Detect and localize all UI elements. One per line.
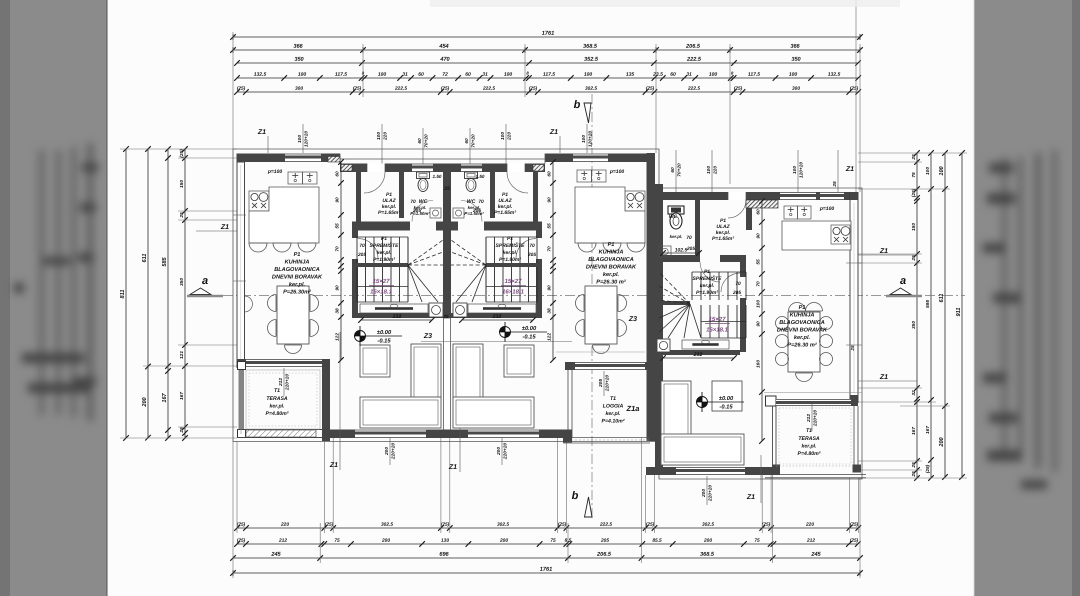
- svg-text:696: 696: [439, 552, 449, 558]
- svg-text:911: 911: [956, 308, 962, 317]
- dimension chain top row5 25/300/222.5...: [237, 91, 858, 93]
- svg-text:470: 470: [439, 57, 450, 63]
- svg-text:368.5: 368.5: [700, 552, 715, 558]
- svg-text:220: 220: [383, 132, 389, 141]
- left building left wall thin double line: [237, 162, 245, 359]
- svg-text:31: 31: [482, 72, 488, 78]
- party wall between unit A and unit B: [443, 164, 451, 319]
- svg-text:70: 70: [529, 243, 535, 249]
- svg-text:ker.pl.: ker.pl.: [801, 443, 816, 449]
- svg-text:a: a: [900, 275, 906, 287]
- right wall door swing arc: [842, 228, 850, 244]
- svg-text:BLAGOVAONICA: BLAGOVAONICA: [274, 267, 320, 273]
- dining table unit B: [585, 286, 617, 344]
- dimension chain bottom row2 212/75/200/130...: [237, 543, 858, 545]
- kitchen B stove: [625, 191, 645, 211]
- svg-text:LOGGIA: LOGGIA: [603, 403, 624, 409]
- interior chain right building 60/90/55/100/90/160: [761, 201, 763, 441]
- terrace left outline and posts: [238, 362, 246, 370]
- unit A wall below hall/wc: [352, 222, 410, 231]
- svg-text:(25): (25): [441, 522, 450, 528]
- unit B hall right wall: [533, 171, 538, 224]
- svg-text:167: 167: [179, 392, 185, 400]
- svg-text:220: 220: [280, 522, 289, 528]
- svg-text:222.5: 222.5: [394, 86, 407, 92]
- svg-text:611: 611: [142, 254, 148, 263]
- svg-text:205: 205: [527, 252, 536, 258]
- svg-text:25: 25: [179, 212, 185, 219]
- svg-text:205: 205: [412, 208, 421, 214]
- stairs unit B mid walk line: [486, 286, 537, 288]
- svg-text:100: 100: [706, 166, 712, 174]
- terrace right thick wall: [322, 367, 330, 441]
- right dimension chain 100/595/167: [930, 153, 932, 478]
- window bottom living B 200: [468, 430, 539, 439]
- svg-text:Z1: Z1: [220, 224, 229, 231]
- loggia zone line: [556, 351, 645, 353]
- left dimension chain 611/200: [147, 149, 149, 438]
- svg-text:245: 245: [270, 552, 281, 558]
- washbasin right building: [659, 246, 671, 257]
- svg-text:205: 205: [472, 208, 481, 214]
- svg-text:±0.00: ±0.00: [522, 326, 537, 332]
- svg-text:P1: P1: [507, 236, 513, 242]
- dim 232 unit A: [361, 319, 432, 321]
- interior chain unit B 60/90/55/70/90/38/122: [552, 162, 554, 360]
- right building wc/hall wall below: [663, 255, 700, 262]
- svg-text:60: 60: [464, 138, 470, 144]
- svg-text:72: 72: [442, 72, 448, 78]
- right dimension chain small 25/75/150/350/167: [916, 153, 918, 478]
- svg-text:205: 205: [686, 246, 695, 252]
- svg-text:1761: 1761: [540, 567, 552, 573]
- svg-text:P=1.65m²: P=1.65m²: [378, 210, 400, 216]
- right building stair block right wall: [740, 262, 746, 277]
- left dimension chain small 25/150/25/350/121/167: [184, 149, 186, 438]
- svg-text:(25): (25): [529, 86, 538, 92]
- door spremiste B swing: [516, 239, 536, 259]
- right terrace roof line: [764, 392, 862, 394]
- svg-text:P1: P1: [381, 236, 387, 242]
- svg-text:55: 55: [547, 223, 553, 229]
- svg-text:KUHINJA: KUHINJA: [599, 249, 624, 255]
- svg-text:595: 595: [925, 300, 931, 308]
- svg-text:167: 167: [162, 392, 168, 402]
- svg-text:P=4.80m²: P=4.80m²: [798, 451, 821, 457]
- svg-text:25: 25: [911, 255, 917, 262]
- washing machine right building: [657, 339, 670, 352]
- svg-text:70: 70: [686, 235, 692, 241]
- svg-text:(25): (25): [850, 538, 859, 544]
- svg-text:70+20: 70+20: [471, 134, 477, 148]
- svg-text:p=100: p=100: [609, 169, 625, 175]
- svg-text:122: 122: [335, 333, 341, 341]
- svg-text:55: 55: [756, 259, 762, 265]
- svg-text:60: 60: [418, 72, 424, 78]
- level marker right building: [697, 397, 708, 408]
- svg-text:352.5: 352.5: [584, 57, 599, 63]
- svg-text:31: 31: [402, 72, 408, 78]
- svg-text:TERASA: TERASA: [266, 396, 288, 402]
- porch roof edge line: [340, 158, 545, 160]
- svg-text:(25): (25): [646, 86, 655, 92]
- door right wc swing: [700, 262, 720, 282]
- washing machine unit A: [429, 303, 443, 317]
- svg-text:T1: T1: [610, 396, 616, 402]
- svg-text:(25): (25): [734, 86, 743, 92]
- svg-text:16×18.1: 16×18.1: [706, 327, 729, 333]
- svg-text:KUHINJA: KUHINJA: [790, 312, 815, 318]
- dimension chain bottom row1 25/220/302.5...: [237, 527, 858, 529]
- left dimension chain 811: [125, 149, 127, 438]
- window label 200/220+20 bottom B: [501, 438, 503, 465]
- svg-text:75: 75: [334, 538, 340, 544]
- svg-text:Z1: Z1: [257, 129, 266, 136]
- svg-text:p=100: p=100: [819, 206, 835, 212]
- svg-text:25: 25: [911, 471, 917, 478]
- entry door unit A with swing arc: [367, 164, 385, 173]
- svg-text:350: 350: [791, 57, 801, 63]
- right building wall below stairs: [663, 350, 740, 355]
- svg-text:220+20: 220+20: [813, 410, 819, 427]
- window label 200/220+20 bottom A: [389, 438, 391, 465]
- svg-text:Z1: Z1: [549, 129, 558, 136]
- svg-text:Z3: Z3: [423, 333, 432, 340]
- svg-text:120+20: 120+20: [799, 162, 805, 178]
- svg-text:P=4.10m²: P=4.10m²: [602, 418, 625, 424]
- washing machine unit B: [453, 303, 467, 317]
- window porch wall wc A 60: [412, 164, 433, 173]
- extension lines left side: [120, 148, 237, 150]
- svg-text:Z1: Z1: [845, 166, 854, 173]
- svg-text:130: 130: [441, 538, 449, 544]
- svg-text:100: 100: [789, 72, 798, 78]
- svg-text:132.5: 132.5: [828, 72, 841, 78]
- svg-text:100: 100: [504, 72, 513, 78]
- svg-text:70: 70: [547, 246, 553, 252]
- unit B wall between hall and wc: [490, 171, 495, 218]
- svg-text:100: 100: [792, 166, 798, 174]
- window right building top 2: [820, 192, 844, 200]
- svg-text:15×27: 15×27: [505, 279, 523, 285]
- svg-text:232: 232: [492, 314, 502, 320]
- svg-text:100: 100: [584, 72, 593, 78]
- stairs unit A landing edge: [352, 263, 408, 267]
- svg-text:P1: P1: [704, 269, 710, 275]
- svg-text:(25): (25): [762, 522, 771, 528]
- svg-text:212: 212: [806, 538, 815, 544]
- svg-text:300: 300: [792, 86, 800, 92]
- door spremiste right building swing: [721, 273, 740, 292]
- svg-text:SPREMIŠTE: SPREMIŠTE: [496, 241, 526, 249]
- window label 60/70+20 right wc: [675, 150, 677, 192]
- svg-text:55: 55: [335, 223, 341, 229]
- stairs right building winder fan: [659, 272, 690, 304]
- svg-text:25: 25: [911, 154, 917, 161]
- svg-text:70: 70: [359, 243, 365, 249]
- svg-text:-0.15: -0.15: [377, 338, 391, 344]
- label 25 right top: [837, 150, 839, 192]
- dimension chain bottom row3 245/696/206.5/368.5/245: [233, 557, 860, 559]
- door label 100/220 right building: [711, 150, 713, 192]
- left building right wall: [647, 153, 656, 441]
- svg-text:117.5: 117.5: [335, 72, 347, 78]
- loggia top wall segments: [565, 362, 575, 370]
- sofa right building long: [661, 434, 744, 465]
- svg-text:302.5: 302.5: [497, 522, 509, 528]
- terrace top wall with window opening: [237, 359, 246, 367]
- svg-text:90: 90: [335, 285, 341, 291]
- svg-text:60: 60: [417, 138, 423, 144]
- svg-text:(25): (25): [237, 538, 246, 544]
- unit A hall left wall: [356, 171, 361, 224]
- window terrace top 212: [246, 359, 322, 367]
- svg-text:31: 31: [686, 72, 692, 78]
- svg-text:100: 100: [939, 165, 945, 175]
- svg-text:(25): (25): [179, 149, 185, 158]
- stairs unit B winder fan: [451, 240, 486, 265]
- dimension chain top row4 small dims: [237, 77, 858, 79]
- right building terrace top wall corner: [850, 395, 858, 406]
- stairs unit B lower flight treads: [485, 267, 487, 302]
- window top wall kitchen A 150: [285, 154, 321, 163]
- svg-text:811: 811: [120, 290, 126, 299]
- svg-text:(25): (25): [558, 522, 567, 528]
- svg-text:206.5: 206.5: [685, 44, 701, 50]
- svg-text:205: 205: [357, 252, 366, 258]
- window label 100/120+20 top kitchen B: [586, 124, 588, 153]
- svg-text:167: 167: [911, 427, 917, 435]
- svg-text:±0.00: ±0.00: [719, 396, 734, 402]
- door wc B swing: [461, 201, 482, 222]
- toilet unit A: [417, 172, 430, 179]
- svg-text:16×18.1: 16×18.1: [370, 289, 393, 295]
- svg-text:302.5: 302.5: [381, 522, 393, 528]
- svg-text:Z1: Z1: [329, 462, 338, 469]
- window label 205/220+20 loggia: [603, 371, 605, 396]
- dim 232 unit B: [462, 319, 533, 321]
- svg-text:TERASA: TERASA: [798, 436, 820, 442]
- svg-text:100: 100: [378, 72, 387, 78]
- entry door right building with swing arc: [728, 192, 746, 200]
- kitchen B counter island: [575, 187, 645, 243]
- svg-text:205: 205: [732, 290, 741, 296]
- svg-text:8: 8: [731, 70, 734, 75]
- svg-text:8: 8: [526, 70, 529, 75]
- svg-text:100: 100: [709, 72, 718, 78]
- entry door unit B with swing arc: [507, 164, 525, 173]
- svg-text:25: 25: [179, 427, 185, 434]
- svg-text:200: 200: [142, 396, 148, 407]
- svg-text:(25): (25): [353, 86, 362, 92]
- svg-text:90: 90: [547, 197, 553, 203]
- window right building bottom 200: [676, 467, 745, 475]
- right terrace right thin wall lines: [853, 406, 855, 465]
- washbasin unit B: [453, 208, 464, 218]
- dining chairs unit B: [576, 295, 585, 312]
- unit B wall below stairs: [443, 313, 542, 318]
- svg-text:Z1a: Z1a: [626, 404, 640, 413]
- terrace left dotted inner border: [246, 370, 320, 429]
- svg-text:25: 25: [832, 181, 838, 188]
- stairs unit B landing edge: [486, 263, 542, 267]
- svg-text:P=26.30m²: P=26.30m²: [283, 288, 311, 295]
- stairs right building mid walk line: [701, 321, 746, 323]
- svg-text:P=26.30 m²: P=26.30 m²: [787, 341, 817, 348]
- dimension chain top row3 350/470/352.5/222.5/350: [237, 62, 858, 64]
- svg-text:302.5: 302.5: [585, 86, 597, 92]
- svg-text:-0.15: -0.15: [719, 404, 733, 410]
- svg-text:ker.pl.: ker.pl.: [269, 403, 284, 409]
- svg-text:SPREMIŠTE: SPREMIŠTE: [693, 274, 723, 282]
- loggia side thin lines: [567, 370, 569, 438]
- svg-text:WC: WC: [669, 214, 678, 220]
- dining table right building: [788, 312, 820, 372]
- svg-text:100: 100: [756, 300, 762, 308]
- svg-text:T1: T1: [274, 388, 280, 394]
- left building top wall kitchen A section: [237, 154, 340, 163]
- left building facade outline: [233, 149, 659, 442]
- left building bottom wall segments: [330, 430, 355, 439]
- hatched block porch right end: [533, 165, 544, 172]
- svg-text:220+20: 220+20: [605, 375, 611, 392]
- loggia open edge bottom lines: [563, 437, 650, 439]
- svg-text:b: b: [572, 490, 579, 502]
- svg-text:220: 220: [713, 166, 719, 175]
- svg-text:38: 38: [335, 308, 341, 314]
- extension lines bottom: [232, 441, 234, 578]
- svg-text:Z1: Z1: [448, 464, 457, 471]
- left gray blurred sidebar: [0, 0, 106, 596]
- kitchen A sinks: [288, 172, 303, 184]
- svg-text:±0.00: ±0.00: [377, 330, 392, 336]
- svg-text:(25): (25): [237, 86, 246, 92]
- unit B wall below hall/wc: [484, 222, 542, 231]
- right gray blurred sidebar: [975, 0, 1080, 596]
- svg-text:70+20: 70+20: [677, 163, 683, 177]
- svg-text:220+20: 220+20: [285, 374, 291, 391]
- svg-text:ker.pl.: ker.pl.: [289, 282, 306, 288]
- svg-text:220: 220: [507, 132, 513, 141]
- svg-text:454: 454: [438, 44, 449, 50]
- svg-text:a: a: [202, 275, 208, 287]
- door spremiste A swing: [358, 239, 378, 259]
- stairs right building lower flight treads: [700, 305, 702, 338]
- sofa armchair unit A: [360, 345, 390, 377]
- svg-text:60: 60: [335, 171, 341, 177]
- svg-text:160: 160: [756, 360, 762, 368]
- tv shelf unit B: [468, 304, 536, 313]
- sofa tall unit B: [453, 344, 483, 400]
- window label 60/70+20 wc B: [469, 128, 471, 164]
- svg-text:Z3: Z3: [628, 316, 637, 323]
- svg-text:90: 90: [335, 197, 341, 203]
- svg-text:368.5: 368.5: [583, 44, 598, 50]
- svg-text:220: 220: [805, 522, 814, 528]
- right building hatched shelf block: [746, 200, 778, 208]
- svg-text:200: 200: [499, 538, 508, 544]
- dining table unit A: [277, 286, 309, 344]
- svg-text:25: 25: [911, 462, 917, 469]
- svg-text:90: 90: [756, 321, 762, 327]
- kitchen right building counter: [782, 221, 851, 250]
- stairs unit A winder fan: [408, 240, 443, 265]
- svg-text:-0.15: -0.15: [522, 334, 536, 340]
- svg-text:ker.pl.: ker.pl.: [503, 250, 517, 256]
- svg-text:P=26.30 m²: P=26.30 m²: [596, 278, 626, 285]
- svg-text:245: 245: [810, 552, 821, 558]
- svg-text:P=4.80m²: P=4.80m²: [266, 411, 289, 417]
- left wall door swing arc: [245, 296, 253, 312]
- sofa tall unit A: [411, 344, 441, 400]
- window loggia top 205: [575, 362, 645, 370]
- dimension chain top row2 366/454/368.5/206.5/366: [233, 49, 860, 51]
- svg-text:205: 205: [600, 538, 609, 544]
- svg-text:23.5: 23.5: [652, 72, 663, 78]
- right dimension chain overall 911: [961, 153, 963, 477]
- svg-text:100: 100: [500, 132, 506, 140]
- svg-text:ker.pl.: ker.pl.: [700, 283, 714, 289]
- section line a-a horizontal dash-dot: [187, 295, 965, 297]
- svg-text:60: 60: [670, 72, 676, 78]
- svg-text:T1: T1: [806, 428, 812, 434]
- svg-text:P=1.90m²: P=1.90m²: [499, 257, 521, 263]
- svg-text:222.5: 222.5: [687, 86, 700, 92]
- svg-text:205: 205: [598, 379, 604, 388]
- svg-text:70: 70: [735, 281, 741, 287]
- kitchen right building stove: [831, 225, 850, 244]
- svg-text:85.5: 85.5: [652, 538, 662, 544]
- unit A wall below stairs: [352, 313, 451, 318]
- svg-text:p=100: p=100: [267, 169, 283, 175]
- dimension chain top row1 overall 1761: [233, 36, 860, 38]
- svg-text:212: 212: [278, 538, 287, 544]
- svg-text:P1: P1: [294, 252, 301, 258]
- svg-text:1.50: 1.50: [433, 174, 442, 179]
- svg-text:117.5: 117.5: [543, 72, 555, 78]
- toilet unit B: [465, 172, 478, 179]
- svg-text:DNEVNI BORAVAK: DNEVNI BORAVAK: [586, 264, 637, 270]
- right terrace left edge lines: [772, 406, 774, 465]
- svg-text:32: 32: [911, 390, 917, 396]
- stairs unit A mid walk line: [357, 286, 408, 288]
- sofa armchair unit B: [504, 345, 534, 377]
- sofa long unit A: [360, 397, 441, 428]
- svg-text:P=1.65m²: P=1.65m²: [712, 236, 734, 242]
- svg-text:200: 200: [381, 538, 390, 544]
- svg-text:SPREMIŠTE: SPREMIŠTE: [370, 241, 400, 249]
- section line b-b vertical dash-dot: [591, 94, 593, 520]
- svg-text:200: 200: [939, 436, 945, 447]
- svg-text:232: 232: [392, 314, 402, 320]
- svg-text:366: 366: [293, 44, 303, 50]
- svg-text:200: 200: [703, 538, 712, 544]
- stairs unit A lower flight treads: [356, 267, 358, 302]
- svg-text:15×27: 15×27: [709, 317, 727, 323]
- svg-text:70+20: 70+20: [424, 134, 430, 148]
- svg-text:Z1: Z1: [879, 248, 888, 255]
- window right building terrace top 212: [776, 399, 851, 406]
- paper edge shading right: [974, 0, 975, 596]
- svg-text:(25): (25): [325, 522, 334, 528]
- svg-text:70: 70: [335, 246, 341, 252]
- window bottom living A 200: [355, 430, 426, 439]
- svg-text:120+20: 120+20: [304, 131, 310, 147]
- svg-text:100: 100: [581, 135, 587, 143]
- svg-text:585: 585: [162, 256, 168, 266]
- svg-text:(25): (25): [646, 522, 655, 528]
- right building left wall: [655, 184, 663, 475]
